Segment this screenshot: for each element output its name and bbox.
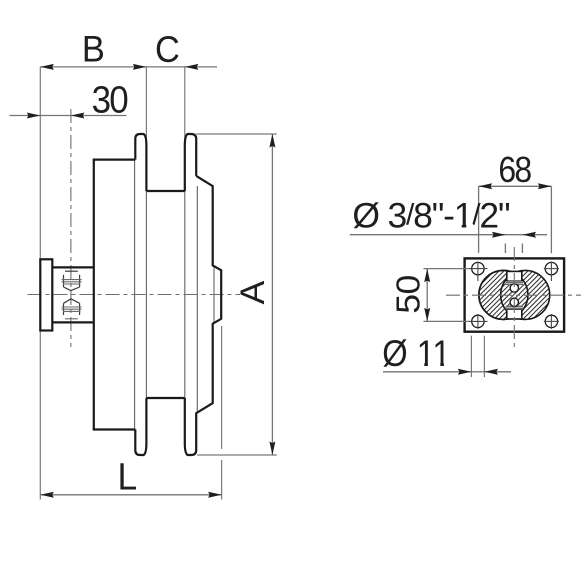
bolt holes [472,262,558,327]
centerlines [28,109,241,347]
wire: disc edge continuation [196,186,198,413]
port top: white square [506,271,523,292]
body left face [93,160,95,430]
groove floor bottom [146,397,184,399]
dimension line B and C [40,66,217,68]
node: horizontal centerline of pulley [28,294,241,296]
threaded port top: top line [65,270,78,272]
svg-text:50: 50 [391,275,428,314]
wire: groove wall continuation right [184,144,186,441]
threaded port bottom: side walls [63,303,65,315]
arrowhead A bottom [269,442,275,456]
port bottom: hole circle [510,298,518,306]
68 extension left [478,186,480,253]
dimension line 68 [479,185,552,187]
arrowhead A top [269,134,275,148]
wire: C right extension line [184,67,186,144]
leader line 3/8-1/2 [350,234,506,236]
arrowhead 50 top [424,269,430,283]
main outline thick [40,134,221,455]
arrowhead 30 left (outside) [27,113,41,119]
bolt hole centerline crosses [468,262,559,330]
rim flange top-left ear [135,134,146,191]
arrowhead L left [40,492,54,498]
wire: B/L left extension line [39,67,41,500]
arrowhead 50 bottom [424,308,430,322]
threaded port bottom: cap cone [64,299,80,304]
node: hub port centerline vertical [70,109,72,347]
dimension line 30 [10,115,127,117]
wire: C left extension line [145,67,147,144]
arrowhead dia11 right (outside pointing left) [484,369,498,375]
wire: chamfer edge continuation [213,266,215,324]
extension lines (gray) [40,67,276,500]
groove floor top [146,190,184,192]
threaded port bottom: thread lines [62,306,82,308]
leader line dia 11 [383,371,471,373]
port extension ticks [504,244,506,254]
gear bore left circle [479,270,528,319]
port top: thread band [506,281,523,285]
dimension line 50 [426,269,428,322]
thin edge continuation lines [135,144,214,441]
flange plate rectangle [465,258,564,331]
disc right profile with chamfers [196,176,221,448]
svg-text:Ø 3/8"-1/2": Ø 3/8"-1/2" [352,195,510,235]
top step [93,159,136,161]
gear bore right circle [501,270,550,319]
threaded port top: side walls [63,275,65,287]
rim flange top-right ear [185,134,196,191]
port bottom: thread band [506,305,523,309]
port top: hole circle [510,284,518,292]
arrowhead 3/8 right (outside pointing left) [523,232,537,238]
flange centerlines [446,247,581,347]
svg-text:68: 68 [498,150,531,190]
hub threaded ports [64,271,80,290]
svg-text:L: L [117,455,137,497]
mask foot serifs of 11 [417,362,424,369]
svg-text:30: 30 [92,78,128,121]
mask foot serif of 1 [455,224,462,231]
arrowhead C right (outside) [185,64,199,70]
svg-text:B: B [82,28,105,69]
bore lobes hatched [479,270,550,319]
arrowhead B right [133,64,147,70]
dimension line A [271,134,273,455]
dia11 tangent extension lines [471,336,484,377]
flange plate [40,259,52,330]
threaded port top: cone to center [64,287,80,291]
arrowhead 3/8 left (outside pointing right) [492,232,506,238]
threaded port top: thread lines [62,279,82,281]
wire: L right extension line [221,326,223,449]
wire: rim outer edge continuation left [134,160,136,430]
hub block top edge [52,266,94,268]
dimension line L [40,494,221,496]
threaded port bottom: bottom line [65,318,78,320]
port bottom: white square [506,298,523,319]
arrowhead 68 left [479,183,493,189]
68 extension right [550,186,552,253]
wire: A bottom extension line [197,454,277,456]
arrowhead dia11 left (outside pointing right) [458,369,472,375]
rim flange bottom-left ear [135,398,146,455]
50 extensions (hole centerlines) [424,268,469,270]
svg-text:C: C [155,29,180,70]
hub block bottom edge [52,321,94,323]
arrowhead L right [208,492,222,498]
rim flange bottom-right ear [185,398,196,455]
wire: groove wall continuation left [145,144,147,441]
wire: A top extension line [196,133,277,135]
arrowhead 30 right (outside) [71,113,85,119]
svg-text:A: A [234,280,272,305]
arrowhead B left [40,64,54,70]
bottom step [93,428,136,430]
arrowhead 68 right [538,183,552,189]
